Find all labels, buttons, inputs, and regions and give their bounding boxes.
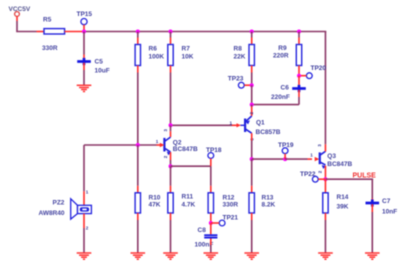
wire rail to R7 [170,32,172,38]
svg-text:330R: 330R [223,201,239,208]
svg-text:R11: R11 [182,194,194,201]
resistor R7 [168,45,173,66]
transistor Q2 base pin [157,144,161,146]
capacitor C5 pin bottom [83,63,85,70]
svg-text:VCC5V: VCC5V [9,6,31,13]
test point TP21 [219,220,225,226]
svg-text:C8: C8 [198,227,207,234]
svg-text:220R: 220R [273,53,289,60]
svg-text:1: 1 [310,153,313,158]
test point TP20 [306,73,312,79]
resistor R10 [135,193,140,213]
wire Q1 node to Q3 base [252,158,285,160]
wire rail F-corner [299,31,326,33]
svg-text:2: 2 [86,226,89,231]
svg-text:C6: C6 [281,84,290,91]
svg-text:C7: C7 [382,198,391,205]
resistor R12 [208,193,213,213]
wire R13 to ground [251,220,253,253]
wire R11 to ground [170,220,172,253]
svg-text:R14: R14 [337,194,349,201]
transistor Q3 emitter [320,162,326,165]
wire C8 to ground [210,245,212,253]
speaker PZ2 [71,199,78,219]
resistor R7 pin top [170,38,172,45]
resistor R12 pin top [210,186,212,193]
capacitor C6 pin bottom [298,90,300,97]
svg-text:AW8R40: AW8R40 [39,210,65,217]
transistor Q2 base arrow [160,143,165,147]
wire R13 down [251,159,253,186]
wire TP19 to Q3 base [285,158,307,160]
capacitor C6 pin top [298,76,300,88]
transistor Q1 emitter [246,116,252,122]
svg-text:TP21: TP21 [223,214,239,221]
ground (R14) [318,252,333,254]
wire right rail down [324,32,326,145]
capacitor C8 pin top [210,223,212,234]
svg-text:TP15: TP15 [77,11,93,18]
ground (R13) [244,252,259,254]
svg-text:R8: R8 [234,46,243,53]
ground (C7) [365,252,380,254]
junction TP23 [250,83,254,87]
TP21 pin [211,222,219,224]
svg-text:2: 2 [249,112,254,115]
test point TP23 [238,82,244,88]
transistor Q3 base bar [319,152,321,164]
resistor R10 pin top [137,186,139,193]
wire C5 to ground [83,70,85,85]
speaker PZ2 pin 2 [83,214,85,228]
junction TP19 [283,157,287,161]
test point TP15 [81,19,87,25]
resistor R5 pin right [65,31,84,33]
junction rail/R7 [169,30,173,34]
junction Q1 emitter node [250,103,254,107]
svg-text:C5: C5 [95,59,104,66]
transistor Q2 emitter [164,148,170,152]
svg-text:330R: 330R [42,45,58,52]
wire TP18 node to R12 [210,166,212,186]
wire rail B-C [138,31,171,33]
wire R10 to ground [137,220,139,253]
wire node1 to R10 [137,145,139,186]
wire TP23 node down [251,85,253,104]
wire top rail [16,31,36,33]
wire Q2 emitter down [170,160,172,166]
resistor R14 pin top [324,179,326,193]
test point TP19 [282,148,288,154]
svg-text:TP23: TP23 [228,76,244,83]
junction Q1 collector/R13 [250,157,254,161]
wire Q1 collector down [251,141,253,160]
wire node to Q1 emitter [251,105,253,108]
junction TP20/R9/C6 [297,74,301,78]
resistor R9 pin top [298,38,300,45]
wire R8 to TP23 node [251,73,253,86]
svg-text:TP20: TP20 [311,65,327,72]
transistor Q2 base bar [163,138,165,152]
wire rail to R6 [137,32,139,38]
TP23 pin [244,84,251,86]
resistor R6 [135,45,140,66]
transistor Q2 collector pin [170,131,172,137]
capacitor C5 pin top [83,55,85,61]
resistor R6 pin bottom [137,66,139,73]
junction rail/R6 [136,30,140,34]
svg-text:3: 3 [163,129,168,132]
ground (PZ2) [77,252,92,254]
svg-text:R13: R13 [262,194,274,201]
transistor Q3 collector pin [324,144,326,151]
capacitor C7 [366,202,380,205]
svg-text:Q3: Q3 [327,153,336,160]
svg-text:PZ2: PZ2 [53,199,65,206]
resistor R10 pin bottom [137,213,139,220]
svg-text:100K: 100K [149,54,165,61]
resistor R5 [44,29,65,34]
wire rail E-F [252,31,299,33]
wire speaker top [83,145,85,191]
junction Q2 emitter node [169,164,173,168]
wire VCC down [16,21,18,32]
wire speaker node [84,144,157,146]
ground (C5) [77,84,92,86]
svg-text:220nF: 220nF [271,94,290,101]
junction Q3 emitter/TP22/R14/PULSE [323,177,327,181]
svg-text:22K: 22K [234,54,246,61]
svg-text:R6: R6 [149,46,158,53]
transistor Q1 base arrow [237,123,241,127]
capacitor C7 pin top [371,199,373,202]
transistor Q3 base pin [308,158,313,160]
svg-text:10uF: 10uF [95,68,110,75]
capacitor C5 [77,60,91,63]
svg-text:10K: 10K [182,54,194,61]
wire R6 to node1 [137,73,139,146]
svg-text:TP19: TP19 [278,142,294,149]
transistor Q3 base arrow [315,157,320,161]
wire R14 to ground [324,220,326,253]
ground (C8) [204,252,219,254]
wire rail to R9 [298,32,300,38]
svg-text:10nF: 10nF [382,208,397,215]
wire Q1 base left [171,124,233,126]
wire rail to C5 [83,32,85,55]
wire C6 down [298,97,300,105]
resistor R5 pin left [37,31,45,33]
svg-text:PULSE: PULSE [353,172,377,179]
transistor Q1 collector pin [251,133,253,140]
svg-text:1: 1 [86,190,89,195]
junction rail/R9 [297,30,301,34]
svg-text:3: 3 [317,144,322,147]
TP19 pin [284,154,286,159]
wire to Q2 collector [170,125,172,131]
wire R7 to Q2 collector [170,73,172,126]
TP15 pin [83,25,85,32]
svg-text:BC857B: BC857B [256,129,281,136]
transistor Q1 base bar [244,119,246,133]
svg-text:39K: 39K [337,204,349,211]
test point TP18 [208,153,214,159]
svg-text:R10: R10 [149,194,161,201]
junction rail/R8 [250,30,254,34]
TP20 pin [299,75,306,77]
svg-text:R9: R9 [278,45,287,52]
transistor Q1 base lead [240,124,245,126]
test point TP22 [312,176,318,182]
resistor R14 pin bottom [324,213,326,220]
wire rail to R8 [251,32,253,38]
TP22 pin [318,178,325,180]
resistor R13 pin bottom [251,213,253,220]
resistor R11 [168,193,173,213]
resistor R11 pin top [170,186,172,193]
wire C6 to Q1 emitter node [252,104,299,106]
wire PULSE down [371,179,373,198]
transistor Q2 emitter pin [170,152,172,160]
svg-text:R12: R12 [223,194,235,201]
svg-text:BC847B: BC847B [173,146,198,153]
resistor R9 [296,45,301,66]
wire Q2 emitter node to R11 [170,166,172,186]
transistor Q3 emitter pin [324,166,326,180]
wire rail C-E [171,31,252,33]
svg-text:TP18: TP18 [206,147,222,154]
wire C7 to ground [371,212,373,253]
resistor R13 [249,193,254,213]
resistor R8 [249,45,254,66]
transistor Q1 base pin [232,124,237,126]
wire rail A-B [84,31,138,33]
ground (R11) [163,252,178,254]
capacitor C7 pin bottom [371,204,373,212]
svg-text:R5: R5 [43,17,52,24]
svg-text:R7: R7 [182,46,191,53]
svg-text:8.2K: 8.2K [262,201,276,208]
TP18 pin [210,159,212,167]
junction R6-R10/speaker wire [136,143,140,147]
capacitor C8 pin bottom [210,239,212,246]
resistor R6 pin top [137,38,139,45]
transistor Q1 collector [245,129,252,133]
wire Q2 emitter node right [171,165,211,167]
resistor R9 pin bottom [298,66,300,76]
junction TP21 [209,221,213,225]
transistor Q2 collector [164,137,170,141]
junction R7/Q2 collector/Q1 base [169,123,173,127]
svg-text:4.7K: 4.7K [182,202,196,209]
resistor R13 pin top [251,186,253,193]
resistor R8 pin top [251,38,253,45]
resistor R7 pin bottom [170,66,172,73]
svg-text:Q1: Q1 [256,120,265,127]
svg-text:2: 2 [318,170,323,173]
speaker PZ2 pin 1 [83,191,85,205]
svg-text:1: 1 [156,139,159,144]
svg-text:2: 2 [163,155,168,158]
resistor R8 pin bottom [251,66,253,73]
capacitor C8 [204,234,217,236]
svg-text:TP22: TP22 [300,171,316,178]
svg-text:BC847B: BC847B [327,161,352,168]
VCC pin circle [15,12,20,17]
wire speaker to ground [83,228,85,253]
transistor Q1 emitter pin [251,107,253,116]
resistor R12 pin bottom [210,213,212,223]
junction TP15/rail [82,30,86,34]
ground (R10) [131,252,146,254]
transistor Q3 collector [320,151,326,155]
resistor R14 [323,193,328,213]
resistor R11 pin bottom [170,213,172,220]
wire PULSE [325,178,373,180]
svg-text:47K: 47K [149,201,161,208]
capacitor C6 [292,87,306,90]
